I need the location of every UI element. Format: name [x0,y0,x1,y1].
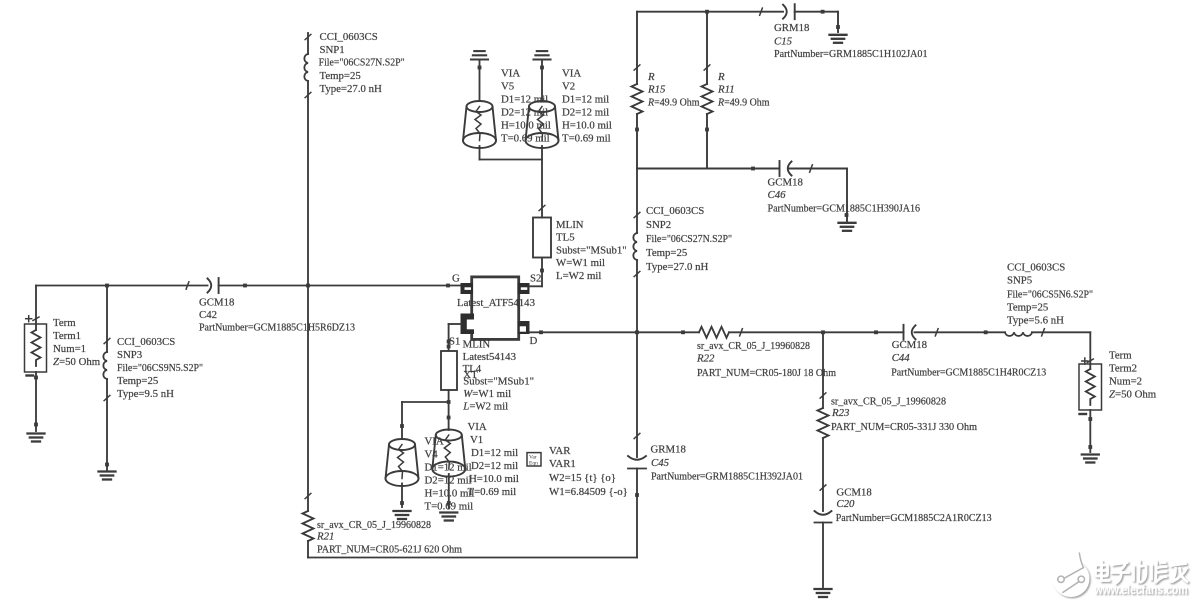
ground SNP3 [99,472,116,480]
node D pin [539,330,543,334]
svg-text:PartNumber=GCM1885C1H390JA16: PartNumber=GCM1885C1H390JA16 [768,203,921,215]
svg-text:D1=12 mil: D1=12 mil [501,94,548,106]
via V4 [386,439,419,486]
svg-text:V2: V2 [562,81,575,93]
wire top bias net [637,12,838,32]
svg-text:CCI_0603CS: CCI_0603CS [117,336,175,348]
svg-text:G: G [452,273,460,285]
var eqn VAR1 box [527,453,541,467]
capacitor C42 [208,278,219,293]
resistor R21 [303,511,314,541]
svg-text:R=49.9 Ohm: R=49.9 Ohm [717,97,770,109]
svg-text:D1=12 mil: D1=12 mil [562,94,609,106]
svg-text:W2=15 {t} {o}: W2=15 {t} {o} [549,472,616,484]
svg-text:V5: V5 [501,81,514,93]
svg-text:TL5: TL5 [556,232,575,244]
node junction SNP3 tap [105,284,109,288]
svg-text:C15: C15 [774,36,793,48]
svg-text:VIA: VIA [562,68,581,80]
svg-text:sr_avx_CR_05_J_19960828: sr_avx_CR_05_J_19960828 [831,396,946,408]
svg-text:Term: Term [1109,350,1132,362]
node junction C42 right pin [243,284,247,288]
capacitor C45 [628,332,646,557]
svg-text:SNP5: SNP5 [1007,275,1032,287]
ground Term1 [28,434,45,442]
node R11 top tap [705,10,709,14]
svg-text:PartNumber=GRM1885C1H102JA01: PartNumber=GRM1885C1H102JA01 [774,48,928,60]
svg-text:D2=12 mil: D2=12 mil [562,107,609,119]
svg-text:Latest_ATF54143: Latest_ATF54143 [457,297,535,309]
svg-text:Term1: Term1 [53,330,81,342]
svg-text:S2: S2 [530,273,541,285]
wire gate net horizontal [36,285,461,287]
capacitor C44 [904,325,916,340]
ground C15 [830,35,847,43]
svg-text:R22: R22 [696,353,715,365]
svg-text:T=0.69 mil: T=0.69 mil [562,133,611,145]
inductor SNP2 [636,169,638,333]
resistor R22 [699,327,729,338]
node S2 riser [540,269,544,273]
node R11 bottom pin [705,128,709,132]
svg-text:PartNumber=GCM1885C1H5R6DZ13: PartNumber=GCM1885C1H5R6DZ13 [199,322,355,334]
node V1 top [447,416,451,420]
term Term1 [25,286,47,432]
node R23 tap [821,330,825,334]
wire mid bias net [637,169,847,222]
svg-text:Temp=25: Temp=25 [320,70,361,82]
svg-text:D1=12 mil: D1=12 mil [471,447,518,459]
node Term2 lower pin [1088,417,1092,421]
node junction SNP1/R21 tap [306,284,310,288]
inductor SNP1 [307,33,309,511]
ground V1 [440,513,457,521]
node R15 bottom pin [635,128,639,132]
svg-text:H=10.0 mil: H=10.0 mil [562,120,612,132]
wire TL5 to via V2 [541,146,543,218]
svg-text:GRM18: GRM18 [774,22,809,34]
svg-text:SNP1: SNP1 [320,44,345,56]
wire TL4 to vias [402,390,449,439]
wire V1 to ground [448,474,450,508]
svg-text:H=10.0 mil: H=10.0 mil [469,473,519,485]
wire drain net [530,332,1091,364]
via V1 [432,430,465,477]
svg-text:File="06CS9N5.S2P": File="06CS9N5.S2P" [117,362,203,374]
node C15 ground stem [836,25,840,29]
wire V2 to ground [541,60,543,101]
svg-text:CCI_0603CS: CCI_0603CS [320,31,378,43]
svg-text:GCM18: GCM18 [199,297,234,309]
svg-text:Term2: Term2 [1109,363,1137,375]
resistor R15 [636,12,638,169]
resistor R23 [822,332,824,511]
via V2 [526,101,559,148]
svg-text:File="06CS27N.S2P": File="06CS27N.S2P" [319,57,405,69]
svg-text:File="06CS27N.S2P": File="06CS27N.S2P" [646,233,732,245]
svg-text:R23: R23 [831,407,850,419]
ground V2 top [534,51,551,59]
node V1 ground pin [447,501,451,505]
node V5 ground stem [478,66,482,70]
node SNP5 left pin [984,330,988,334]
svg-text:R: R [647,71,655,83]
svg-text:sr_avx_CR_05_J_19960828: sr_avx_CR_05_J_19960828 [317,519,431,531]
svg-text:D2=12 mil: D2=12 mil [471,460,518,472]
node junction gate pin [446,284,450,288]
svg-text:S1: S1 [449,336,460,348]
svg-text:GCM18: GCM18 [836,487,871,499]
svg-text:T=0.69 mil: T=0.69 mil [501,133,550,145]
svg-text:H=10.0 mil: H=10.0 mil [501,120,551,132]
svg-text:Type=27.0 nH: Type=27.0 nH [320,83,383,95]
svg-text:GRM18: GRM18 [651,444,686,456]
node Term1 lower pin [34,376,38,380]
svg-text:T=0.69 mil: T=0.69 mil [468,486,517,498]
node SNP3 ground pin [105,463,109,467]
svg-text:C44: C44 [892,352,911,364]
svg-text:PartNumber=GCM1885C1H4R0CZ13: PartNumber=GCM1885C1H4R0CZ13 [891,367,1046,379]
svg-text:Subst="MSub1": Subst="MSub1" [556,244,627,256]
svg-text:Z=50 Ohm: Z=50 Ohm [1109,389,1157,401]
svg-text:VAR: VAR [549,445,571,457]
node V4 top [400,424,404,428]
node R22 left pin [681,330,685,334]
svg-text:VIA: VIA [501,68,520,80]
wire S2 to TL5 [530,258,543,287]
node C15 right pin [821,10,825,14]
inductor SNP3 [106,286,108,471]
svg-text:D: D [530,335,538,347]
node drain feedback junction [635,330,639,334]
transistor U1 Latest_ATF54143 [461,277,530,340]
svg-text:D1=12 mil: D1=12 mil [425,462,472,474]
svg-text:Z=50 Ohm: Z=50 Ohm [53,356,101,368]
node C46 left pin [751,167,755,171]
capacitor C46 [780,161,792,176]
via V5 [463,101,496,148]
svg-text:R11: R11 [717,84,735,96]
svg-text:C46: C46 [768,189,787,201]
svg-text:PartNumber=GRM1885C1H392JA01: PartNumber=GRM1885C1H392JA01 [651,471,803,483]
svg-text:R15: R15 [647,84,666,96]
svg-text:CCI_0603CS: CCI_0603CS [646,205,704,217]
node V2 ground stem [540,66,544,70]
svg-text:VIA: VIA [468,421,487,433]
wire feedback bottom [308,557,637,559]
svg-text:GCM18: GCM18 [892,339,927,351]
svg-text:Temp=25: Temp=25 [1007,302,1048,314]
svg-text:Latest54143: Latest54143 [463,351,516,363]
svg-text:File="06CS5N6.S2P": File="06CS5N6.S2P" [1007,289,1093,301]
node C44 left pin [874,330,878,334]
svg-text:T=0.69 mil: T=0.69 mil [425,501,474,513]
svg-text:L=W2 mil: L=W2 mil [556,270,601,282]
svg-text:C42: C42 [199,309,217,321]
ground Term2 [1082,455,1099,463]
svg-text:Type=5.6 nH: Type=5.6 nH [1007,315,1064,327]
svg-text:Temp=25: Temp=25 [117,375,158,387]
node C46 ground stem [845,213,849,217]
ground V5 top [471,51,488,59]
node TL4 bottom junction [447,400,451,404]
svg-text:SNP2: SNP2 [646,219,671,231]
svg-text:V4: V4 [425,449,439,461]
ground C46 [839,223,856,231]
ground C20 [815,589,832,597]
svg-text:Type=27.0 nH: Type=27.0 nH [646,261,709,273]
svg-text:R21: R21 [316,531,334,543]
svg-text:CCI_0603CS: CCI_0603CS [1007,262,1065,274]
svg-text:C45: C45 [651,457,670,469]
node V4 ground pin [400,501,404,505]
mlin TL5 [533,218,551,258]
svg-text:Eqn: Eqn [529,461,538,467]
svg-text:C20: C20 [836,498,855,510]
svg-text:sr_avx_CR_05_J_19960828: sr_avx_CR_05_J_19960828 [697,340,810,352]
svg-text:Num=2: Num=2 [1109,376,1142,388]
svg-text:SNP3: SNP3 [117,349,142,361]
svg-text:V1: V1 [470,434,483,446]
svg-text:PartNumber=GCM1885C2A1R0CZ13: PartNumber=GCM1885C2A1R0CZ13 [836,512,992,524]
wire V5 to ground [479,60,481,101]
svg-text:W=W1 mil: W=W1 mil [463,388,511,400]
svg-text:www.elecfans.com: www.elecfans.com [1094,583,1188,597]
wire S1 to TL4 [449,324,461,351]
svg-text:R=49.9 Ohm: R=49.9 Ohm [647,97,700,109]
node S1 riser [447,340,451,344]
capacitor C15 [783,4,795,19]
svg-text:PART_NUM=CR05-621J 620 Ohm: PART_NUM=CR05-621J 620 Ohm [317,544,463,556]
ground V4 [394,511,411,519]
term Term2 [1079,358,1102,452]
svg-text:MLIN: MLIN [463,339,491,351]
node Term1 ground pin [34,423,38,427]
svg-text:D2=12 mil: D2=12 mil [425,475,472,487]
svg-text:VIA: VIA [425,436,444,448]
svg-text:Subst="MSub1": Subst="MSub1" [463,376,534,388]
node C45 bottom pin [635,493,639,497]
svg-text:MLIN: MLIN [556,219,584,231]
wire V5 link [480,146,543,160]
svg-text:VAR1: VAR1 [549,458,576,470]
svg-text:GCM18: GCM18 [768,177,803,189]
inductor SNP5 [1005,332,1032,336]
svg-text:Type=9.5 nH: Type=9.5 nH [117,388,174,400]
svg-text:Term: Term [53,317,76,329]
svg-text:R: R [717,71,725,83]
svg-text:L=W2 mil: L=W2 mil [462,401,508,413]
watermark elecfans logo [1053,552,1090,597]
svg-text:Num=1: Num=1 [53,343,86,355]
svg-text:Temp=25: Temp=25 [646,247,687,259]
capacitor C20 [815,511,832,587]
svg-text:D2=12 mil: D2=12 mil [501,107,548,119]
wire V4 to ground [401,484,403,508]
svg-text:W=W1 mil: W=W1 mil [556,257,605,269]
svg-text:PART_NUM=CR05-180J 18 Ohm: PART_NUM=CR05-180J 18 Ohm [697,367,837,379]
svg-text:W1=6.84509 {-o}: W1=6.84509 {-o} [549,486,628,498]
node Term2 ground pin [1088,445,1092,449]
svg-text:PART_NUM=CR05-331J 330 Ohm: PART_NUM=CR05-331J 330 Ohm [831,421,978,433]
resistor R11 [706,12,708,169]
watermark chinese glyphs [1096,561,1188,583]
mlin TL4 [441,351,457,390]
